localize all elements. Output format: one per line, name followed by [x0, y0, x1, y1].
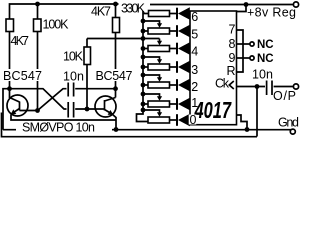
capacitor C3 10n (output) [267, 81, 272, 96]
wire C1 right to Q2 collector node [75, 88, 115, 90]
transistor Q1 BC547 [7, 89, 38, 116]
wire R1 bottom to Q1 collector node [9, 32, 11, 89]
resistor R2 100K [34, 19, 42, 32]
node Q2 collector / C1 [113, 86, 118, 91]
svg-text:9: 9 [229, 51, 236, 65]
node Q1 collector [7, 86, 12, 91]
wire 10K top to bus and preset row3 wiper [87, 38, 160, 40]
terminal NC pin8 [250, 42, 254, 46]
svg-text:BC547: BC547 [3, 69, 42, 83]
svg-text:3: 3 [191, 63, 198, 77]
svg-text:NC: NC [257, 39, 274, 51]
wire R3 bottom to Q2 collector [115, 33, 117, 98]
wire Vdd from rail to IC [237, 5, 247, 12]
svg-text:O/P: O/P [273, 89, 296, 103]
diode D7 [176, 114, 190, 127]
wire R4 bottom to Q2 base [86, 65, 88, 110]
wire +V rail right [150, 4, 294, 6]
wire crossover A : Q1 collector node to C2 [10, 89, 67, 109]
wire R2 bottom to Q1 base node [37, 32, 39, 111]
border bottom-left [2, 113, 258, 137]
wire enable pin to ground [237, 115, 248, 130]
resistor R4 10K [84, 47, 91, 65]
label Q2 BC547 [95, 69, 133, 83]
node Ck/output junction [255, 84, 260, 89]
node 10K-bus junction [141, 36, 146, 41]
wire rail to R2 [37, 4, 39, 19]
svg-text:8: 8 [229, 37, 236, 51]
svg-text:Ck: Ck [215, 77, 230, 91]
wire +V rail left [10, 4, 119, 19]
wire R4 top [86, 39, 88, 48]
transistor Q2 BC547 [95, 96, 116, 117]
preset P3 row4 [141, 55, 176, 70]
preset P6 row7 [141, 108, 176, 123]
node Q2 emitter on rail [114, 127, 119, 132]
svg-text:0: 0 [190, 113, 197, 127]
wire pin7 to R [237, 30, 244, 72]
svg-text:5: 5 [191, 27, 198, 41]
svg-text:4K7: 4K7 [11, 34, 30, 48]
pin 0 [189, 113, 197, 127]
node C2 / 10K junction [85, 107, 90, 112]
wire Q1 emitter to ground [11, 115, 116, 121]
clock input arrow [229, 81, 234, 89]
node enable ground [245, 127, 250, 132]
terminal O/P [293, 84, 298, 89]
terminal Gnd [290, 129, 295, 134]
preset P4 row5 [141, 73, 176, 88]
preset P1 row2 [141, 19, 176, 34]
wire Q2 emitter down to rail [112, 114, 116, 130]
svg-text:+8v Reg: +8v Reg [247, 6, 296, 20]
svg-text:4K7: 4K7 [91, 5, 111, 19]
svg-text:NC: NC [257, 53, 274, 65]
svg-text:330K: 330K [121, 2, 146, 16]
node rail junction Vdd [244, 2, 249, 7]
capacitor C1 10n (top) [68, 83, 73, 97]
svg-text:10n: 10n [63, 70, 84, 84]
wire Ck line to output cap [237, 86, 266, 88]
diode D5 [176, 79, 190, 92]
svg-text:2: 2 [191, 80, 198, 94]
diode D3 [176, 42, 190, 55]
diode D2 [176, 25, 190, 38]
wire junction down to rail [256, 87, 258, 137]
diode D4 [176, 61, 190, 74]
resistor R330K row1 [143, 11, 176, 17]
svg-text:4017: 4017 [194, 97, 232, 123]
node Q1 base [35, 108, 40, 113]
label SM0VPO 10n [16, 121, 112, 135]
svg-text:4: 4 [191, 45, 198, 59]
svg-text:7: 7 [229, 23, 236, 37]
wire C2 right to Q2 base [75, 108, 95, 110]
terminal NC pin9 [250, 56, 254, 60]
svg-text:100K: 100K [43, 18, 70, 32]
wire crossover B : Q1 base node to C1 [38, 89, 67, 111]
svg-text:1: 1 [191, 96, 198, 110]
resistor R3 4K7 [113, 18, 120, 33]
wire rail to R3 [115, 4, 117, 18]
svg-text:Gnd: Gnd [278, 116, 299, 130]
wire cap to O/P [274, 86, 294, 88]
bus vertical [137, 11, 149, 122]
diode D6 [176, 98, 190, 111]
wire pin8 NC [237, 43, 250, 45]
preset P2 row3 [141, 39, 176, 52]
wire Q1 collector wrap to bottom rail [3, 89, 10, 130]
svg-text:BC547: BC547 [96, 69, 133, 83]
diode D1 [176, 7, 190, 20]
wire pin9 NC [237, 57, 250, 59]
IC U1 4017 box [190, 11, 237, 125]
svg-text:10n: 10n [252, 68, 273, 82]
capacitor C2 10n (bottom) [68, 102, 73, 118]
terminal +8v Reg [293, 2, 298, 7]
svg-text:6: 6 [191, 10, 198, 24]
svg-text:10K: 10K [63, 50, 84, 64]
label Q1 BC547 [2, 69, 43, 83]
node rail junction 4K7b [113, 2, 118, 7]
preset P5 row6 [141, 92, 176, 107]
resistor R1 4K7 [6, 19, 14, 32]
wire ground rail [3, 129, 291, 131]
svg-text:SMØVPO 10n: SMØVPO 10n [22, 121, 95, 135]
node rail junction 100K [35, 2, 40, 7]
label R1 4K7 [10, 34, 30, 48]
